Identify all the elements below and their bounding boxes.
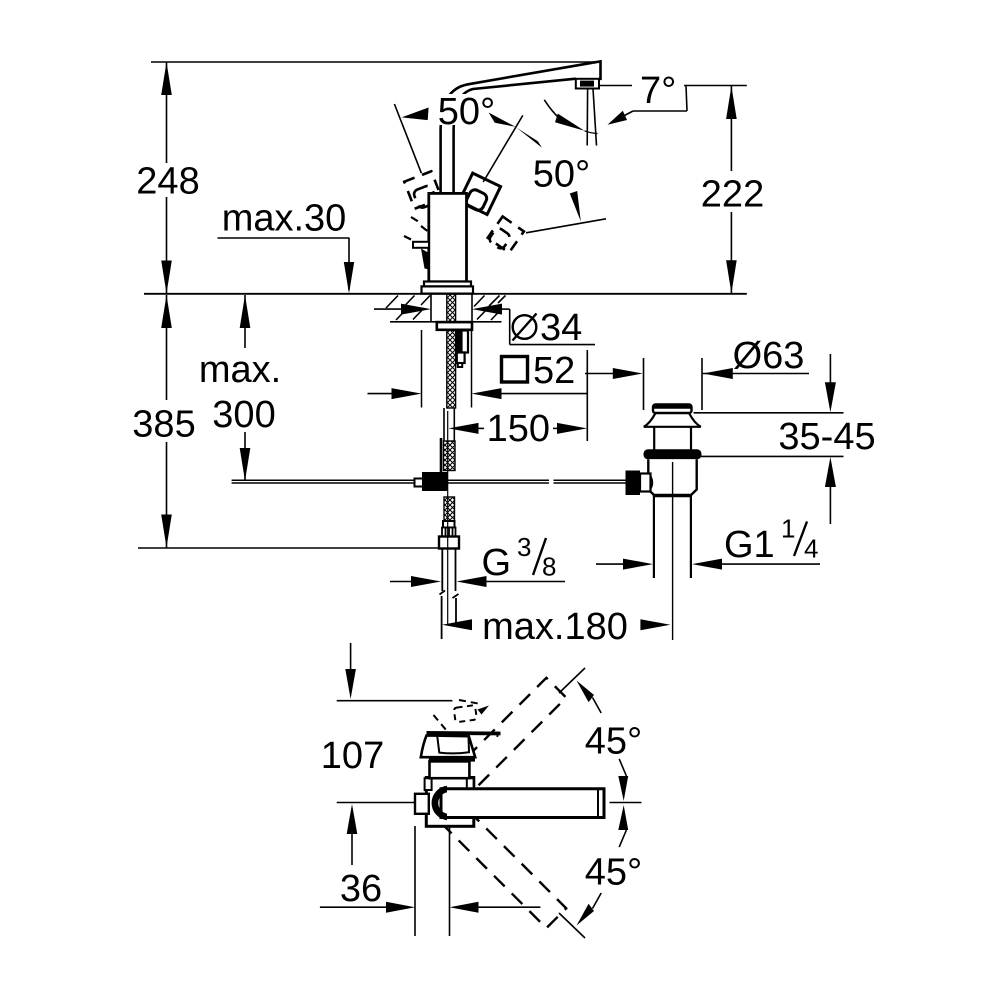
- svg-text:max.30: max.30: [222, 198, 347, 240]
- svg-text:Ø63: Ø63: [733, 335, 805, 377]
- svg-text:222: 222: [701, 174, 764, 216]
- svg-text:35-45: 35-45: [778, 416, 875, 458]
- svg-text:1: 1: [781, 514, 795, 544]
- svg-text:7°: 7°: [640, 70, 676, 112]
- svg-text:3: 3: [517, 532, 531, 562]
- svg-text:50°: 50°: [533, 154, 590, 196]
- svg-text:36: 36: [340, 868, 382, 910]
- svg-text:248: 248: [136, 161, 199, 203]
- svg-text:max.: max.: [199, 349, 281, 391]
- svg-text:50°: 50°: [438, 91, 495, 133]
- svg-text:G1: G1: [724, 524, 775, 566]
- svg-text:34: 34: [540, 307, 582, 349]
- svg-text:G: G: [482, 542, 512, 584]
- svg-text:385: 385: [132, 404, 195, 446]
- svg-text:max.180: max.180: [482, 606, 628, 648]
- svg-text:150: 150: [487, 408, 550, 450]
- svg-text:45°: 45°: [585, 721, 642, 763]
- svg-text:52: 52: [533, 350, 575, 392]
- svg-text:45°: 45°: [585, 852, 642, 894]
- svg-text:4: 4: [804, 534, 818, 564]
- svg-text:8: 8: [542, 552, 556, 582]
- svg-text:107: 107: [321, 735, 384, 777]
- svg-text:300: 300: [212, 394, 275, 436]
